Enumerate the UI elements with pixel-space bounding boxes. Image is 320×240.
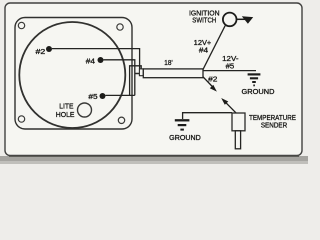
gauge body circle [19,22,125,128]
terminal #4 dot [98,57,104,63]
wire 12V- #5 to right ground [203,70,256,72]
svg-text:#5: #5 [226,61,235,70]
svg-text:18': 18' [164,60,172,67]
svg-text:GROUND: GROUND [242,89,275,96]
temperature sender body [232,113,245,131]
temperature sender stub [235,131,240,149]
card / outer frame [5,3,302,156]
terminal #5 dot [100,93,106,99]
ground symbol right [248,74,261,85]
gauge mounting panel [15,18,132,130]
svg-text:#2: #2 [208,75,217,84]
wire sender to left ground [183,113,232,119]
screw hole top-left [18,22,24,28]
svg-text:#2: #2 [36,47,46,56]
svg-text:GROUND: GROUND [169,135,201,142]
wire from #2 to cable top [52,49,140,69]
wire from #5 over the top to plug [106,94,135,96]
page background [0,0,308,164]
lite hole circle [78,103,92,117]
arrow from temperature sender toward #2 [224,101,236,113]
ground symbol left [175,120,190,129]
ignition switch circle [223,13,237,27]
svg-text:SENDER: SENDER [261,123,287,130]
wire #2 arrow from cable junction [203,77,214,89]
svg-text:#4: #4 [199,46,208,55]
wire #5 riser over the top into plug [130,66,142,96]
connector plug [139,69,143,76]
svg-text:#4: #4 [86,56,95,65]
shadow strip below card [0,156,308,162]
svg-text:TEMPERATURE: TEMPERATURE [249,115,296,122]
screw hole bottom-right [118,117,124,123]
wire stub into plug [135,73,140,75]
screw hole bottom-left [18,116,24,122]
svg-text:HOLE: HOLE [56,112,75,119]
svg-text:#5: #5 [88,92,97,101]
wire 12V+ #4 to ignition switch [203,26,225,70]
wire from #4 to plug [104,60,135,96]
svg-text:LITE: LITE [59,103,74,110]
18ft cable (loom) [143,69,203,78]
screw hole top-right [117,24,123,30]
svg-text:SWITCH: SWITCH [192,18,216,25]
ignition switch key flag [237,18,246,20]
terminal #2 dot [46,46,52,52]
